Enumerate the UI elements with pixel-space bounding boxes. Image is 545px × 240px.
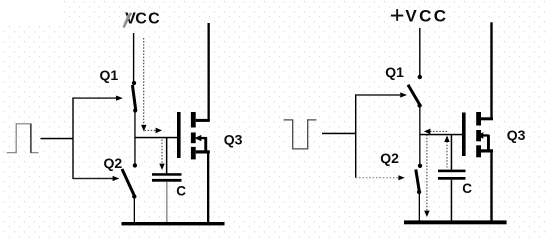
MOSFET Q3 channel segments (right) xyxy=(476,112,481,157)
wire capacitor to ground (left, gray) xyxy=(166,182,168,223)
node Q2 top contact (right) xyxy=(418,164,422,168)
wire gate node (left) xyxy=(135,137,178,139)
node Q2 bottom contact (right) xyxy=(417,190,421,194)
switch Q2 (left, open) xyxy=(122,169,134,196)
wire input to bus (right) xyxy=(322,133,356,135)
wire VCC rail (right) xyxy=(419,28,420,76)
dashed discharge path from capacitor with up arrow (right) xyxy=(444,136,449,168)
dotted Q2 drive branch with arrow (right) xyxy=(356,175,405,180)
dashed current path into capacitor (left) xyxy=(159,140,164,171)
MOSFET Q3 body arrow (right) xyxy=(477,132,490,149)
dashed current path horizontal to capacitor (left) xyxy=(145,128,163,134)
wire switch column (right) xyxy=(419,106,420,164)
wire input bus (right) xyxy=(355,94,356,178)
capacitor C top plate (left) xyxy=(152,173,182,176)
switch Q1 (right, open) xyxy=(408,85,420,105)
svg-text:Q1: Q1 xyxy=(100,67,119,83)
wire source to ground (left) xyxy=(207,153,209,222)
svg-text:C: C xyxy=(176,184,186,199)
MOSFET Q3 gate bar (right) xyxy=(462,113,466,157)
capacitor C top plate (right) xyxy=(438,170,466,173)
wire gate node (right) xyxy=(420,134,463,136)
svg-text:C: C xyxy=(462,181,472,196)
wire switch column (left) xyxy=(134,111,135,164)
node Q1 bottom contact (right) xyxy=(417,103,421,107)
svg-text:Q2: Q2 xyxy=(104,155,123,171)
wire Q2 to ground (left) xyxy=(134,197,135,223)
svg-text:Q3: Q3 xyxy=(507,127,526,143)
ground rail (left) xyxy=(122,222,225,225)
MOSFET Q3 drain connection (left) xyxy=(196,119,210,122)
wire drain up (right) xyxy=(490,22,492,119)
ground rail (right) xyxy=(404,220,507,224)
power label VCC (left) xyxy=(124,11,161,28)
capacitor C bottom plate (right) xyxy=(438,177,466,180)
node Q1 top contact (right) xyxy=(418,75,422,79)
wire input bus (left) xyxy=(72,98,73,180)
wire Q2 to ground (right) xyxy=(419,193,420,221)
svg-text:Q2: Q2 xyxy=(380,150,399,166)
capacitor C bottom plate (left) xyxy=(152,179,182,182)
switch Q1 (left, closed) xyxy=(132,85,135,110)
wire gate node to capacitor (left) xyxy=(166,138,168,173)
MOSFET Q3 channel segments (left) xyxy=(191,112,196,159)
dashed current path from VCC beside Q1 (left) xyxy=(141,38,146,131)
switch Q2 (right, closed) xyxy=(416,170,420,192)
wire input to bus (left) xyxy=(41,138,74,140)
wire capacitor to ground (right) xyxy=(451,180,453,221)
node Q2 bottom contact (left) xyxy=(132,194,136,198)
svg-text:VCC: VCC xyxy=(405,7,446,26)
input pulse symbol (left, positive pulse) xyxy=(7,124,39,153)
node Q2 top contact (left) xyxy=(133,163,137,167)
power label +VCC (right) xyxy=(391,7,446,26)
wire Q1 drive branch with arrow (left) xyxy=(72,96,123,101)
MOSFET Q3 source connection (left) xyxy=(196,150,210,153)
node Q1 top contact (left) xyxy=(132,81,136,85)
wire VCC rail (left) xyxy=(133,33,134,82)
svg-text:Q3: Q3 xyxy=(224,131,243,147)
dashed discharge path horizontal with left arrow (right) xyxy=(424,129,448,135)
wire source to ground (right) xyxy=(490,152,492,221)
svg-text:Q1: Q1 xyxy=(385,64,404,80)
MOSFET Q3 drain connection (right) xyxy=(481,117,493,120)
input pulse symbol (right, negative pulse) xyxy=(284,120,317,149)
wire Q2 drive branch with arrow (left) xyxy=(73,176,119,181)
wire drain up (left) xyxy=(208,23,210,121)
wire Q1 drive branch with arrow (right) xyxy=(355,92,407,97)
MOSFET Q3 body arrow (left) xyxy=(195,135,208,152)
MOSFET Q3 source connection (right) xyxy=(481,149,493,152)
node Q1 bottom contact (left) xyxy=(133,108,137,112)
dashed discharge path down through Q2 with down arrow (right) xyxy=(424,135,429,218)
wire gate node to capacitor (right) xyxy=(451,135,453,170)
MOSFET Q3 gate bar (left) xyxy=(177,112,181,158)
